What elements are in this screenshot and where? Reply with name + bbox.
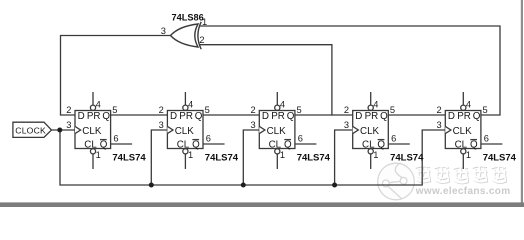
watermark brand glyphs — [416, 166, 506, 183]
wire: U4 Q to U5 D — [295, 114, 353, 116]
svg-text:1: 1 — [373, 150, 378, 160]
wire: clock drop to U5 CLK — [335, 130, 353, 185]
svg-text:D: D — [78, 111, 85, 122]
svg-text:3: 3 — [161, 26, 166, 36]
svg-text:5: 5 — [112, 105, 117, 115]
svg-text:CLK: CLK — [175, 126, 195, 137]
svg-text:3: 3 — [251, 120, 256, 130]
svg-text:5: 5 — [390, 105, 395, 115]
svg-text:Q: Q — [100, 140, 108, 151]
svg-text:CLOCK: CLOCK — [15, 125, 46, 135]
svg-text:4: 4 — [466, 100, 471, 110]
svg-text:2: 2 — [159, 105, 164, 115]
svg-text:6: 6 — [113, 133, 118, 143]
svg-text:D: D — [448, 111, 455, 122]
node: clock junction at U2 CLK — [57, 128, 62, 133]
svg-text:PR: PR — [365, 111, 379, 122]
svg-text:PR: PR — [87, 111, 101, 122]
D flip-flop U4 (74LS74) — [259, 92, 316, 169]
svg-text:4: 4 — [96, 100, 101, 110]
svg-text:Q: Q — [380, 111, 388, 122]
node: clock bus junction 3 — [332, 183, 337, 188]
wire: clock drop to U4 CLK — [243, 130, 259, 185]
svg-text:CLK: CLK — [360, 126, 380, 137]
svg-text:CL: CL — [362, 140, 375, 151]
CLOCK input tag — [13, 122, 52, 137]
wire: XOR output feedback to U2 D input — [61, 36, 171, 116]
wire: XOR input pin 2 tap from U4 Q net — [199, 45, 332, 116]
svg-text:6: 6 — [391, 133, 396, 143]
svg-text:6: 6 — [484, 133, 489, 143]
svg-text:74LS74: 74LS74 — [297, 153, 331, 164]
svg-text:CLK: CLK — [453, 126, 473, 137]
svg-text:2: 2 — [251, 105, 256, 115]
svg-text:CLK: CLK — [82, 126, 102, 137]
svg-text:CL: CL — [84, 140, 97, 151]
wire: U3 Q to U4 D — [203, 114, 259, 116]
svg-text:D: D — [262, 111, 269, 122]
svg-text:Q: Q — [377, 140, 385, 151]
svg-text:2: 2 — [344, 105, 349, 115]
svg-text:PR: PR — [179, 111, 193, 122]
svg-text:2: 2 — [199, 35, 204, 45]
svg-text:5: 5 — [205, 105, 210, 115]
D flip-flop U6 (74LS74) — [445, 92, 502, 169]
svg-text:Q: Q — [470, 140, 478, 151]
wire: U2 Q to U3 D — [111, 114, 168, 116]
svg-text:3: 3 — [159, 120, 164, 130]
svg-text:Q: Q — [102, 111, 110, 122]
watermark logo circle — [378, 163, 415, 200]
D flip-flop U3 (74LS74) — [167, 92, 224, 169]
svg-text:3: 3 — [437, 120, 442, 130]
svg-text:74LS74: 74LS74 — [205, 153, 239, 164]
XOR gate U1 (74LS86) — [171, 22, 202, 49]
svg-text:Q: Q — [284, 140, 292, 151]
svg-text:PR: PR — [457, 111, 471, 122]
svg-text:74LS86: 74LS86 — [172, 12, 204, 22]
svg-text:1: 1 — [202, 17, 207, 27]
svg-text:Q: Q — [473, 111, 481, 122]
svg-text:4: 4 — [373, 100, 378, 110]
svg-text:5: 5 — [483, 105, 488, 115]
svg-text:3: 3 — [344, 120, 349, 130]
D flip-flop U2 (74LS74) — [75, 92, 132, 169]
svg-text:CLK: CLK — [267, 126, 287, 137]
svg-text:PR: PR — [271, 111, 285, 122]
svg-text:74LS74: 74LS74 — [112, 153, 146, 164]
wire: U5 Q to U6 D — [388, 114, 445, 116]
svg-text:D: D — [355, 111, 362, 122]
svg-text:CL: CL — [269, 140, 282, 151]
D flip-flop U5 (74LS74) — [353, 92, 410, 169]
svg-text:2: 2 — [437, 105, 442, 115]
wire: clock bus — [60, 130, 445, 185]
svg-text:Q: Q — [287, 111, 295, 122]
node: clock bus junction 2 — [241, 183, 246, 188]
svg-text:CL: CL — [455, 140, 468, 151]
svg-text:5: 5 — [297, 105, 302, 115]
svg-text:CL: CL — [177, 140, 190, 151]
wire: XOR input pin 1 from U6 Q — [199, 26, 500, 115]
svg-text:D: D — [170, 111, 177, 122]
svg-text:4: 4 — [280, 100, 285, 110]
node: clock bus junction 1 — [149, 183, 154, 188]
svg-text:2: 2 — [66, 105, 71, 115]
svg-text:74LS74: 74LS74 — [483, 153, 517, 164]
svg-text:1: 1 — [466, 150, 471, 160]
svg-text:74LS74: 74LS74 — [390, 153, 424, 164]
svg-text:Q: Q — [192, 140, 200, 151]
svg-text:6: 6 — [206, 133, 211, 143]
svg-text:3: 3 — [66, 120, 71, 130]
svg-text:6: 6 — [298, 133, 303, 143]
svg-text:1: 1 — [188, 150, 193, 160]
svg-text:4: 4 — [188, 100, 193, 110]
svg-text:Q: Q — [195, 111, 203, 122]
svg-text:1: 1 — [96, 150, 101, 160]
wire: clock drop to U3 CLK — [151, 130, 167, 185]
wire: CLOCK to U2 CLK — [52, 129, 76, 131]
svg-text:www.elecfans.com: www.elecfans.com — [415, 186, 511, 197]
svg-text:1: 1 — [280, 150, 285, 160]
